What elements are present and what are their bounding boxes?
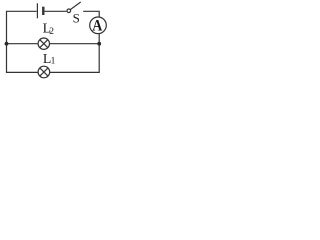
svg-text:1: 1 [51, 56, 56, 66]
svg-text:S: S [73, 10, 80, 25]
wire [50, 43, 100, 45]
lamp L2 [38, 38, 49, 49]
wire [7, 11, 39, 72]
wire [45, 10, 67, 12]
wire [83, 11, 99, 17]
ammeter A1 [90, 17, 107, 34]
svg-text:2: 2 [49, 27, 54, 37]
battery B1 [37, 3, 43, 18]
node junction left [5, 42, 9, 46]
switch S [67, 2, 81, 13]
lamp L1 [38, 66, 50, 78]
node junction right [97, 42, 101, 46]
wire [7, 43, 39, 45]
svg-text:A: A [92, 18, 102, 35]
wire [50, 34, 99, 73]
